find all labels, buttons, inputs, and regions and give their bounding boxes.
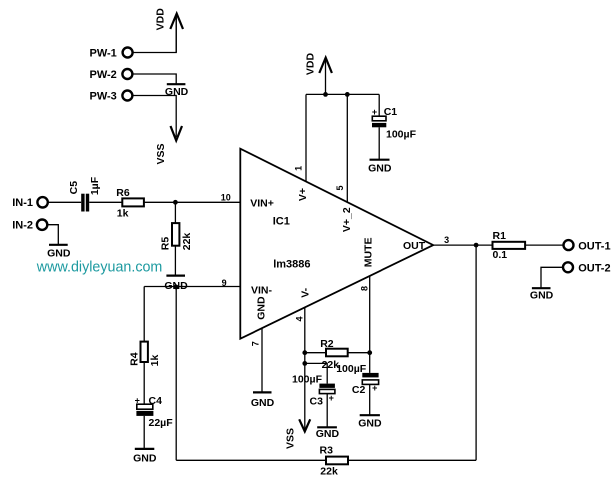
resistor R4 (128, 342, 160, 367)
svg-text:OUT-2: OUT-2 (578, 262, 610, 274)
svg-text:8: 8 (359, 286, 369, 291)
ground GND (C2) (358, 415, 382, 429)
svg-text:GND: GND (530, 290, 554, 302)
svg-text:+: + (329, 393, 334, 403)
svg-text:GND: GND (133, 453, 157, 465)
junction R2 left (302, 350, 307, 355)
svg-text:+: + (372, 107, 377, 117)
junction VIN- node (174, 285, 179, 290)
svg-text:3: 3 (444, 235, 449, 245)
svg-text:VDD: VDD (155, 8, 167, 31)
junction output node (474, 243, 479, 248)
wire PW-3 to VSS (133, 96, 176, 138)
power VDD arrow (left) (155, 8, 184, 53)
svg-text:C3: C3 (310, 395, 324, 407)
terminal OUT-1 (564, 240, 611, 252)
svg-text:www.diyleyuan.com: www.diyleyuan.com (36, 260, 163, 276)
svg-text:V-: V- (299, 287, 311, 297)
svg-text:R4: R4 (128, 352, 140, 366)
capacitor C2 (336, 363, 378, 396)
svg-text:0.1: 0.1 (493, 249, 508, 261)
svg-text:22µF: 22µF (149, 417, 174, 429)
svg-text:GND: GND (358, 417, 382, 429)
svg-text:100µF: 100µF (292, 373, 323, 385)
ground GND (OUT-2) (530, 288, 554, 301)
svg-text:IN-1: IN-1 (12, 197, 33, 209)
wire pin 7 to GND (261, 328, 263, 392)
svg-text:1k: 1k (149, 355, 161, 367)
svg-text:C2: C2 (352, 384, 366, 396)
svg-text:5: 5 (335, 185, 345, 190)
wire C5 to R6 (89, 201, 122, 203)
svg-text:lm3886: lm3886 (273, 259, 310, 271)
junction R2 right (367, 350, 372, 355)
svg-text:R3: R3 (320, 445, 334, 457)
ground GND (IN-2) (47, 245, 71, 260)
capacitor C1 (372, 106, 417, 140)
resistor R5 (160, 223, 193, 250)
wire R2 right (348, 352, 370, 354)
resistor R6 (116, 187, 144, 220)
svg-text:C4: C4 (149, 395, 163, 407)
svg-text:VDD: VDD (305, 52, 317, 75)
svg-text:R5: R5 (160, 237, 172, 251)
svg-text:7: 7 (250, 341, 260, 346)
svg-text:1k: 1k (117, 207, 129, 219)
svg-text:R6: R6 (116, 187, 130, 199)
terminal PW-1 (90, 47, 133, 59)
svg-text:+: + (135, 395, 140, 405)
power VSS arrow (bottom) (284, 419, 310, 449)
wire pin 8 MUTE down to C2 (369, 276, 371, 373)
svg-text:10: 10 (221, 193, 231, 203)
svg-text:IC1: IC1 (273, 216, 290, 228)
svg-text:1µF: 1µF (89, 176, 101, 195)
terminal PW-2 (90, 69, 133, 81)
wire IN-1 to C5 (48, 201, 81, 203)
svg-text:MUTE: MUTE (363, 238, 375, 268)
ground GND (R5) (164, 276, 188, 293)
wire R1 to OUT-1 (525, 244, 563, 246)
ground GND (C4) (133, 449, 157, 465)
wire pin 9 to R4 (143, 287, 145, 342)
wire R4 to C4 (143, 362, 145, 404)
svg-text:C5: C5 (68, 181, 80, 195)
svg-text:+: + (372, 383, 377, 393)
svg-text:R1: R1 (493, 230, 507, 242)
resistor R1 (493, 230, 526, 261)
svg-text:GND: GND (256, 296, 268, 320)
resistor R2 (320, 338, 348, 356)
terminal PW-3 (90, 90, 133, 102)
svg-text:C1: C1 (384, 106, 398, 118)
svg-text:100µF: 100µF (336, 363, 367, 375)
wire VIN- pin 9 (144, 286, 240, 288)
wire feedback bottom (176, 459, 326, 461)
wire C3 to GND (326, 394, 328, 428)
svg-text:22k: 22k (320, 466, 338, 478)
svg-text:1: 1 (293, 166, 303, 171)
svg-text:GND: GND (251, 397, 275, 409)
junction VDD arrow (323, 92, 328, 97)
wire pin 9 node down to feedback (175, 287, 177, 461)
svg-text:4: 4 (295, 316, 305, 321)
svg-text:22k: 22k (181, 233, 193, 251)
wire PW-2 to GND (133, 74, 176, 84)
svg-text:IN-2: IN-2 (12, 220, 33, 232)
wire IN-2 to GND (48, 225, 58, 245)
ground GND (PW-2) (165, 84, 189, 98)
terminal OUT-2 (563, 262, 611, 274)
wire C3 branch (305, 363, 327, 383)
capacitor C3 (292, 373, 335, 407)
capacitor C5 (68, 176, 101, 211)
svg-text:VIN-: VIN- (251, 285, 273, 297)
wire pin 1 V+ (305, 94, 307, 181)
svg-text:100µF: 100µF (386, 128, 417, 140)
node A junction (173, 200, 178, 205)
wire PW-1 to VDD (133, 16, 176, 53)
terminal IN-2 (12, 220, 47, 232)
svg-text:GND: GND (368, 162, 392, 174)
svg-text:R2: R2 (320, 338, 334, 350)
svg-text:VSS: VSS (155, 143, 167, 164)
wire R6 to VIN+ pin 10 (144, 201, 240, 203)
svg-text:PW-3: PW-3 (90, 90, 117, 102)
wire pin 5 V+_2 (346, 94, 348, 202)
svg-text:GND: GND (316, 428, 340, 440)
ground GND (C1) (368, 160, 392, 175)
svg-text:PW-2: PW-2 (90, 69, 117, 81)
wire pin 4 V- down (304, 308, 306, 430)
terminal IN-1 (12, 197, 48, 209)
wire output down (475, 245, 477, 460)
svg-text:OUT-1: OUT-1 (578, 241, 610, 253)
wire rail to C1 (378, 94, 380, 116)
ground GND (C3) (316, 427, 340, 440)
wire OUT pin 3 (433, 244, 492, 246)
svg-text:PW-1: PW-1 (90, 47, 117, 59)
svg-text:V+: V+ (297, 188, 309, 201)
power VDD arrow (center) (305, 52, 332, 94)
wire R2 left (305, 352, 326, 354)
wire OUT-2 to GND (541, 267, 562, 288)
capacitor C4 (135, 395, 174, 429)
junction C3 branch (302, 361, 307, 366)
wire C4 to GND (143, 416, 145, 449)
svg-text:GND: GND (47, 247, 71, 259)
svg-text:OUT: OUT (403, 240, 426, 252)
wire VDD rail (306, 93, 379, 95)
wire R3 to output (348, 459, 476, 461)
svg-text:VSS: VSS (284, 428, 296, 449)
svg-text:VIN+: VIN+ (250, 198, 274, 210)
junction pin 5 rail (345, 92, 350, 97)
op-amp IC1 lm3886 (240, 149, 433, 339)
wire node A to R5 (174, 202, 176, 223)
wire R5 to GND (174, 246, 176, 276)
svg-text:V+_2: V+_2 (341, 207, 353, 232)
power VSS arrow (left) (155, 126, 182, 165)
wire C2 to GND (369, 384, 371, 415)
wire C1 to GND (378, 127, 380, 159)
ground GND (pin 7) (251, 392, 275, 409)
resistor R3 (320, 445, 349, 478)
